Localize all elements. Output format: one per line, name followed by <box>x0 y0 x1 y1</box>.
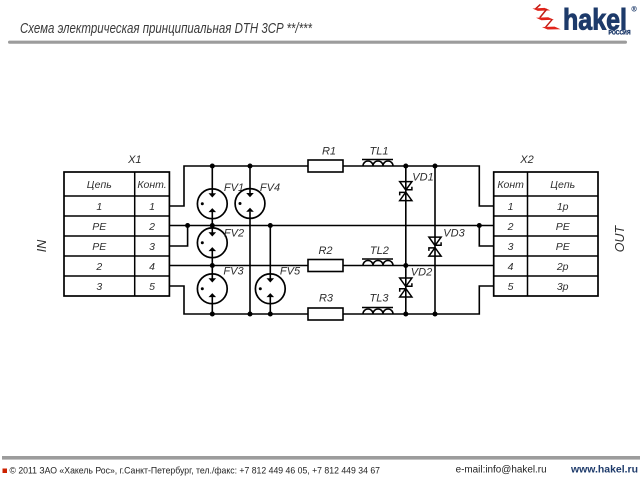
node L2-FV column <box>210 263 215 268</box>
X1 circuit names <box>92 201 107 293</box>
svg-text:3: 3 <box>96 281 102 293</box>
arrester FV5 <box>255 274 285 304</box>
wire L2: X1 pin4 to X2 pin4 <box>169 265 493 267</box>
svg-text:© 2011 ЗАО «Хакель Рос», г.Сан: © 2011 ЗАО «Хакель Рос», г.Санкт-Петербу… <box>10 466 381 477</box>
svg-text:VD2: VD2 <box>411 267 432 279</box>
resistor R2 <box>308 260 343 272</box>
node PE-X2.3 <box>477 223 482 228</box>
wire FV1-FV2-FV3 column <box>211 166 213 314</box>
svg-text:5: 5 <box>149 281 155 293</box>
svg-text:X2: X2 <box>519 154 533 166</box>
svg-text:IN: IN <box>35 239 49 252</box>
svg-text:VD1: VD1 <box>412 172 433 184</box>
node L3-FV4 <box>248 312 253 317</box>
svg-text:®: ® <box>632 6 638 14</box>
logo lightning bolt 2 <box>536 9 554 20</box>
X2 pin numbers <box>507 201 514 293</box>
arrester FV1 <box>197 189 227 219</box>
svg-text:2: 2 <box>507 221 514 233</box>
arrester FV3 <box>197 274 227 304</box>
wire PE branch X1 pin3 <box>169 226 187 247</box>
svg-text:3р: 3р <box>557 281 569 293</box>
inductor TL1 <box>362 160 393 167</box>
svg-text:FV5: FV5 <box>280 266 301 278</box>
footer rule <box>2 456 640 460</box>
svg-text:2: 2 <box>95 261 102 273</box>
logo lightning bolt 1 <box>532 4 550 10</box>
svg-text:FV3: FV3 <box>223 266 244 278</box>
connector table X2 <box>494 172 598 296</box>
svg-text:1: 1 <box>96 201 102 213</box>
node PE-FV column <box>210 223 215 228</box>
svg-text:Цепь: Цепь <box>550 179 575 191</box>
footer bullet <box>3 469 8 474</box>
svg-text:РОССИЯ: РОССИЯ <box>609 31 631 37</box>
svg-text:1: 1 <box>508 201 514 213</box>
svg-text:PE: PE <box>92 221 107 233</box>
X2 circuit names <box>556 201 571 293</box>
wire FV4 column <box>249 166 251 314</box>
svg-text:4: 4 <box>149 261 155 273</box>
svg-text:TL1: TL1 <box>370 146 389 158</box>
node L3-FV column <box>210 312 215 317</box>
svg-text:TL2: TL2 <box>370 245 389 257</box>
X2 column headers <box>497 179 575 191</box>
arrester FV4 <box>235 189 265 219</box>
svg-text:www.hakel.ru: www.hakel.ru <box>570 464 638 476</box>
svg-text:2: 2 <box>148 221 155 233</box>
wire VD3 column <box>434 166 436 314</box>
wire VD1-VD2 column <box>405 166 407 314</box>
svg-text:1р: 1р <box>557 201 569 213</box>
svg-text:FV2: FV2 <box>224 227 244 239</box>
node L3-VD3 <box>433 312 438 317</box>
suppressor VD2 <box>400 278 412 297</box>
svg-text:R1: R1 <box>322 146 336 158</box>
svg-text:X1: X1 <box>127 154 141 166</box>
node PE-FV5 <box>268 223 273 228</box>
svg-text:OUT: OUT <box>613 224 627 252</box>
suppressor VD3 <box>429 237 441 256</box>
wire L3: X1 pin5 to X2 pin5 <box>169 286 493 314</box>
resistor R3 <box>308 308 343 320</box>
svg-text:Цепь: Цепь <box>87 179 112 191</box>
inductor TL3 <box>362 308 393 315</box>
svg-text:Конт.: Конт. <box>137 179 166 191</box>
svg-text:PE: PE <box>92 241 107 253</box>
logo lightning bolt 3 <box>542 19 561 29</box>
svg-text:1: 1 <box>149 201 155 213</box>
svg-text:2р: 2р <box>556 261 569 273</box>
svg-text:Схема электрическая принципиал: Схема электрическая принципиальная DTH 3… <box>20 20 313 37</box>
suppressor VD1 <box>400 182 412 201</box>
svg-text:4: 4 <box>508 261 514 273</box>
svg-text:TL3: TL3 <box>370 293 390 305</box>
svg-text:R3: R3 <box>319 293 334 305</box>
arrester FV2 <box>197 228 227 258</box>
connector table X1 <box>64 172 169 296</box>
svg-text:R2: R2 <box>318 245 332 257</box>
svg-text:PE: PE <box>556 221 571 233</box>
svg-text:3: 3 <box>149 241 155 253</box>
node L1-FV4 <box>248 164 253 169</box>
wire PE: X1 pin2 to X2 pin2 <box>169 225 493 227</box>
svg-text:5: 5 <box>508 281 514 293</box>
node L2-VD column <box>403 263 408 268</box>
inductor TL2 <box>362 259 393 266</box>
resistor R1 <box>308 160 343 172</box>
svg-text:3: 3 <box>508 241 514 253</box>
X1 pin numbers <box>148 201 155 293</box>
svg-text:PE: PE <box>556 241 571 253</box>
node PE-X1.3 <box>185 223 190 228</box>
X1 column headers <box>87 179 167 191</box>
header rule <box>8 41 627 44</box>
wire L1: X1 pin1 to X2 pin1 <box>169 166 493 206</box>
svg-text:Конт: Конт <box>497 179 524 191</box>
wire PE branch X2 pin3 <box>479 226 493 247</box>
node L1-VD3 <box>433 164 438 169</box>
wire FV5 column <box>269 226 271 315</box>
node L3-VD2 <box>403 312 408 317</box>
node L1-VD1 <box>403 164 408 169</box>
svg-text:FV4: FV4 <box>260 182 280 194</box>
svg-text:e-mail:info@hakel.ru: e-mail:info@hakel.ru <box>456 465 547 476</box>
node L3-FV5 <box>268 312 273 317</box>
node L1-FV1 <box>210 164 215 169</box>
svg-text:VD3: VD3 <box>443 228 465 240</box>
